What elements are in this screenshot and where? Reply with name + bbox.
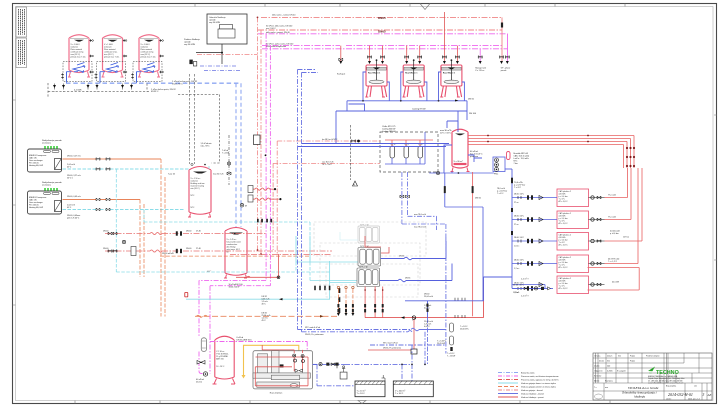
svg-text:2015_pre_2_4: 2015_pre_2_4 (688, 398, 700, 400)
svg-text:27 m³: 27 m³ (514, 201, 519, 204)
svg-text:45°C: 45°C (262, 320, 267, 322)
svg-text:1,2 m³: 1,2 m³ (514, 267, 520, 270)
svg-text:45°C: 45°C (67, 207, 72, 209)
svg-text:4,04°C: 4,04°C (424, 326, 430, 328)
svg-text:DN 40 mPa/B: DN 40 mPa/B (162, 253, 174, 255)
svg-text:Bunarska voda: Bunarska voda (521, 372, 535, 374)
svg-text:28.06. 50°C: 28.06. 50°C (514, 237, 525, 239)
svg-text:drčkovske temperovne: drčkovske temperovne (266, 45, 287, 48)
svg-text:p25 m³/h 40°C: p25 m³/h 40°C (67, 217, 80, 220)
svg-text:T = 10°C: T = 10°C (357, 393, 366, 395)
svg-text:42,5 kW: 42,5 kW (612, 282, 619, 284)
svg-text:DN65: DN65 (378, 16, 386, 20)
svg-text:4,04°C: 4,04°C (424, 308, 430, 310)
svg-text:max 30 m³/h: max 30 m³/h (213, 173, 224, 176)
svg-text:45°C: 45°C (67, 167, 72, 169)
svg-text:Drvine: Drvine (196, 381, 203, 384)
svg-text:T = 6°C: T = 6°C (497, 193, 504, 195)
svg-text:nsv 2 60°C: nsv 2 60°C (266, 28, 276, 30)
svg-text:DN 40, 3,27 m/s: DN 40, 3,27 m/s (67, 156, 81, 158)
svg-text:7 bar: 7 bar (514, 162, 519, 165)
svg-text:pum tem: pum tem (470, 155, 478, 158)
svg-text:65/55°C: 65/55°C (151, 91, 159, 93)
svg-text:Potpis: Potpis (630, 355, 635, 358)
svg-text:DN 65: DN 65 (399, 256, 404, 258)
svg-text:Cooling 87 kW: Cooling 87 kW (412, 109, 426, 111)
svg-text:List br:: List br: (666, 397, 672, 400)
svg-text:Izradio: Izradio (594, 366, 599, 368)
svg-text:DN 65: DN 65 (405, 278, 410, 280)
svg-text:25,00 kPa: 25,00 kPa (460, 329, 469, 331)
svg-text:1,2 m³ T: 1,2 m³ T (521, 295, 529, 298)
svg-text:Mjerilo: Mjerilo (594, 381, 599, 383)
svg-text:Cooling 282 kW: Cooling 282 kW (382, 131, 396, 133)
svg-text:77 p cold: 77 p cold (608, 195, 616, 197)
svg-text:max 78,0 m³/h: max 78,0 m³/h (414, 213, 426, 216)
svg-text:Odgovorni: Odgovorni (594, 371, 603, 373)
svg-text:60: 60 (227, 252, 229, 254)
svg-text:77 p cold: 77 p cold (608, 217, 616, 219)
svg-text:WPF 27 AT: WPF 27 AT (360, 223, 370, 226)
svg-text:DN 65: DN 65 (475, 198, 482, 200)
svg-text:TECHNO: TECHNO (656, 370, 679, 376)
svg-text:M: M (245, 206, 247, 208)
svg-text:T n: T n (594, 387, 597, 389)
svg-text:DN 40: DN 40 (186, 231, 191, 233)
svg-text:NTC max 6 xPud: NTC max 6 xPud (383, 343, 397, 345)
svg-text:DN 65: DN 65 (468, 99, 475, 101)
svg-text:27.46: 27.46 (196, 248, 201, 250)
svg-text:1/100, 500 3°: 1/100, 500 3° (229, 287, 241, 289)
svg-text:Procesna voda, um klavima temp: Procesna voda, um klavima temperaturom (521, 375, 559, 378)
svg-text:A3: A3 (707, 393, 712, 397)
svg-text:28.06. 50°C: 28.06. 50°C (514, 216, 525, 218)
svg-text:artic temp. 65°C: artic temp. 65°C (227, 248, 241, 251)
svg-text:4,2 kWh: 4,2 kWh (74, 90, 82, 92)
svg-text:hlađenja: hlađenja (634, 395, 646, 399)
svg-text:Voda za hlađenje - povrat: Voda za hlađenje - povrat (521, 396, 544, 399)
svg-text:ivka - NTC: ivka - NTC (201, 146, 211, 148)
svg-text:mur: mur (605, 387, 608, 389)
svg-text:V = 30 m³: V = 30 m³ (454, 160, 463, 163)
svg-text:28.06. 50°C: 28.06. 50°C (514, 194, 525, 196)
svg-text:T = +1,2°C: T = +1,2°C (608, 261, 618, 263)
svg-text:Razmjera: Razmjera (605, 381, 613, 383)
svg-text:oscilatora: oscilatora (42, 184, 52, 187)
svg-text:1,6 m³: 1,6 m³ (514, 245, 520, 248)
svg-text:DN 40: DN 40 (186, 248, 191, 250)
svg-text:25,05 kW: 25,05 kW (437, 343, 445, 345)
svg-text:Voda za grijanje doma i za imo: Voda za grijanje doma i za imosa trpiha (521, 382, 557, 385)
svg-text:70°C / 50°C: 70°C / 50°C (322, 164, 333, 166)
svg-text:27.46: 27.46 (196, 231, 201, 233)
svg-text:Ime: Ime (618, 356, 621, 358)
svg-text:AVE 316: AVE 316 (216, 358, 223, 361)
svg-text:A: A (353, 182, 355, 186)
svg-text:Potpis: Potpis (630, 360, 635, 363)
svg-text:4.2005: 4.2005 (607, 371, 613, 373)
svg-text:Kovšajust: Kovšajust (337, 73, 346, 76)
svg-text:01.04.: 01.04. (599, 361, 604, 363)
svg-text:127 kw: 127 kw (623, 237, 630, 239)
svg-text:25,04 m³/h: 25,04 m³/h (424, 295, 433, 298)
svg-text:Predmet izmjene: Predmet izmjene (646, 355, 659, 358)
svg-text:10°C / 16°C: 10°C / 16°C (440, 133, 452, 135)
svg-text:DN 40: DN 40 (103, 248, 108, 250)
svg-text:eco: eco (649, 373, 652, 375)
svg-text:p +0,6 bar: p +0,6 bar (610, 232, 619, 235)
svg-text:los 58,5 m³/h NTC: los 58,5 m³/h NTC (322, 138, 338, 141)
svg-text:S Lazapett: S Lazapett (617, 370, 626, 373)
svg-text:Datum: Datum (607, 355, 613, 358)
svg-text:3: 3 (703, 393, 705, 397)
svg-text:Procesna voda, ugrijana ne tem: Procesna voda, ugrijana ne temp. do 60°C (521, 378, 559, 381)
svg-text:oscilatora: oscilatora (42, 142, 52, 145)
svg-text:T = 10°C: T = 10°C (395, 393, 404, 395)
svg-text:Ime: Ime (607, 361, 610, 363)
svg-text:DN 65, Pu, pritisnemo: DN 65, Pu, pritisnemo (305, 333, 324, 336)
svg-text:tofla socks - somst, DN 40: tofla socks - somst, DN 40 (272, 14, 296, 17)
svg-text:16 - 26°C: 16 - 26°C (216, 366, 225, 368)
svg-text:Kontrolor: Kontrolor (594, 375, 602, 378)
svg-text:Voda za hlađenje - dovod: Voda za hlađenje - dovod (521, 392, 544, 395)
svg-text:T = 45/E: T = 45/E (222, 153, 230, 155)
svg-text:DN 100: DN 100 (469, 113, 477, 115)
svg-text:max 78,0 m³/h: max 78,0 m³/h (414, 226, 426, 229)
svg-text:NTC voda 6 xPud: NTC voda 6 xPud (305, 327, 320, 329)
svg-text:DN 65, Pu pritisnemo: DN 65, Pu pritisnemo (383, 347, 401, 350)
svg-text:panels: panels (501, 70, 507, 72)
svg-text:DN 40, 0,43 m/s: DN 40, 0,43 m/s (67, 196, 81, 198)
svg-text:Oznaka: Oznaka (594, 356, 600, 358)
svg-text:tofla socks - povrat, DN 40: tofla socks - povrat, DN 40 (266, 31, 290, 34)
svg-text:vup 30 GRN: vup 30 GRN (184, 44, 196, 46)
svg-text:1,2 m³ T: 1,2 m³ T (521, 278, 529, 281)
svg-text:Roza trejtman: Roza trejtman (270, 392, 282, 395)
svg-text:28.06. 50°C: 28.06. 50°C (514, 260, 525, 262)
svg-text:WPF 27 AT: WPF 27 AT (359, 266, 369, 269)
svg-text:nito (95°C): nito (95°C) (191, 187, 200, 190)
svg-text:Voda za grijanje pismet un imo: Voda za grijanje pismet un imosa trpiha (521, 385, 557, 388)
svg-text:vup 30 GRN: vup 30 GRN (209, 22, 221, 24)
svg-text:LO *: LO * (207, 271, 211, 273)
svg-text:DN 40: DN 40 (103, 231, 108, 233)
svg-text:50°C 5: 50°C 5 (67, 178, 73, 180)
svg-text:NTC: NTC (191, 195, 196, 197)
svg-text:DN65: DN65 (378, 30, 386, 34)
svg-text:T = 6°C: T = 6°C (514, 187, 522, 189)
svg-text:Vud 1,76°C: Vud 1,76°C (172, 83, 183, 85)
svg-text:V = 170 m³: V = 170 m³ (475, 69, 485, 72)
svg-text:2014-032-H-01: 2014-032-H-01 (668, 392, 693, 397)
svg-text:7 par 45: 7 par 45 (168, 173, 175, 176)
svg-text:27 m³: 27 m³ (514, 223, 519, 226)
svg-text:1,2 m³: 1,2 m³ (513, 291, 519, 294)
svg-text:Voda za grijanje - dovod: Voda za grijanje - dovod (521, 390, 542, 392)
svg-text:24.06. 45°C: 24.06. 45°C (513, 285, 524, 287)
svg-text:FNC: FNC (494, 174, 499, 176)
svg-text:45°C: 45°C (262, 304, 267, 306)
svg-text:VIOLETA d.o.o Grude: VIOLETA d.o.o Grude (628, 386, 659, 390)
svg-text:Broj projekta: Broj projekta (666, 385, 676, 388)
svg-text:NTC: NTC (191, 207, 196, 209)
svg-text:T - 25 kW: T - 25 kW (447, 356, 455, 358)
